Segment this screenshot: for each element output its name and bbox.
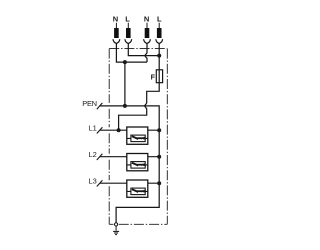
svg-text:L: L xyxy=(125,15,130,24)
svg-text:L2: L2 xyxy=(89,150,97,159)
svg-text:F: F xyxy=(151,72,156,81)
svg-text:L1: L1 xyxy=(89,124,97,133)
svg-text:L: L xyxy=(157,15,162,24)
svg-text:N: N xyxy=(144,15,149,24)
svg-text:PEN: PEN xyxy=(82,99,96,108)
svg-text:N: N xyxy=(113,15,118,24)
svg-text:L3: L3 xyxy=(89,177,97,186)
